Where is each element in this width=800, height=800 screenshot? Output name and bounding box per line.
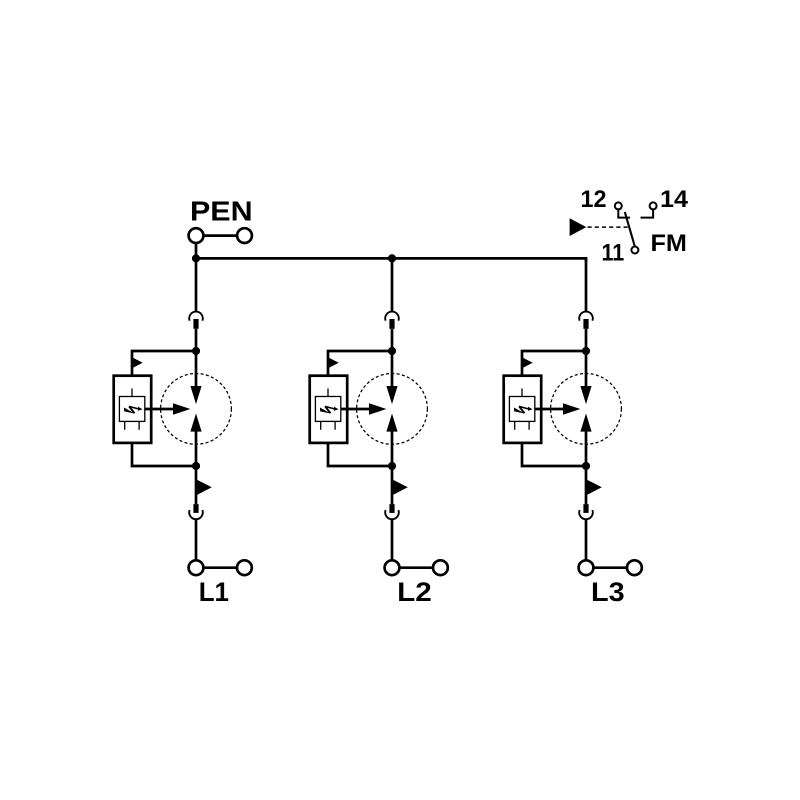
- wire: disconnect to junction node: [585, 329, 588, 351]
- wire: junction to spark gap upper electrode: [391, 351, 394, 387]
- wire: lower parallel loop from monitoring block: [132, 443, 196, 466]
- spark gap lower electrode (triangle up): [580, 414, 591, 432]
- monitoring device block (outer rectangle): [114, 376, 152, 443]
- disconnect direction flag (large) on main wire: [392, 479, 408, 495]
- wire: between L2 terminal circles: [399, 566, 433, 569]
- svg-text:11: 11: [602, 240, 625, 267]
- svg-text:FM: FM: [651, 230, 687, 257]
- thermal disconnect (bottom) on L2 branch: contact block + arc: [385, 504, 399, 519]
- wire: disconnect to junction node: [391, 329, 394, 351]
- contact terminal 11 (circle): [631, 247, 638, 254]
- wire: spark gap to lower junction: [195, 431, 198, 467]
- disconnect direction flag (small) on loop wire: [132, 357, 143, 368]
- surge impulse symbol (lightning bolt) inside inner rect: [514, 406, 533, 413]
- node: lower junction on L3 branch: [582, 462, 590, 470]
- svg-text:L2: L2: [397, 577, 432, 607]
- disconnect direction flag (large) on main wire: [586, 479, 602, 495]
- trigger arrow from monitoring block to spark gap: [341, 403, 387, 414]
- contact terminal 14 (circle): [650, 202, 657, 209]
- trigger arrow from monitoring block to spark gap: [535, 403, 581, 414]
- terminal circle L2 (right): [433, 560, 448, 575]
- terminal circle L1 (right): [237, 560, 252, 575]
- wire: between PEN terminal circles: [203, 234, 237, 237]
- wire: upper parallel loop to monitoring block: [522, 351, 586, 376]
- wire: junction to spark gap upper electrode: [585, 351, 588, 387]
- spark gap lower electrode (triangle up): [190, 414, 201, 432]
- pin: inner element bottom leads: [515, 421, 529, 429]
- terminal circle PEN (left): [189, 228, 204, 243]
- thermal disconnect (top) on L1 branch: arc + contact block: [189, 312, 203, 329]
- terminal circle L1 (left): [189, 560, 204, 575]
- contact terminal 12 (circle): [615, 202, 622, 209]
- trigger arrow from monitoring block to spark gap: [145, 403, 191, 414]
- pin: inner element top lead: [521, 388, 523, 396]
- wire: junction to spark gap upper electrode: [195, 351, 198, 387]
- svg-text:14: 14: [660, 186, 688, 213]
- dashed circle around spark gap: [161, 374, 232, 445]
- wire: junction through flag to lower disconnect: [585, 466, 588, 504]
- varistor element (inner rectangle): [119, 397, 144, 422]
- wire: junction through flag to lower disconnect: [391, 466, 394, 504]
- wire: L3 branch from PEN bus down to thermal disconnect: [585, 258, 588, 311]
- pin: inner element top lead: [131, 388, 133, 396]
- node: lower junction on L2 branch: [388, 462, 396, 470]
- wire: junction through flag to lower disconnect: [195, 466, 198, 504]
- thermal disconnect (top) on L3 branch: arc + contact block: [579, 312, 593, 329]
- wire: spark gap to lower junction: [391, 431, 394, 467]
- varistor element (inner rectangle): [509, 397, 534, 422]
- surge impulse symbol (lightning bolt) inside inner rect: [124, 406, 143, 413]
- terminal circle L3 (left): [579, 560, 594, 575]
- dashed actuation line to changeover contact: [588, 226, 630, 228]
- wire: L1 branch from PEN bus down to thermal disconnect: [195, 258, 198, 311]
- node: upper junction on L3 branch: [582, 347, 590, 355]
- thermal disconnect (bottom) on L3 branch: contact block + arc: [579, 504, 593, 519]
- terminal circle PEN (right): [237, 228, 252, 243]
- wire: PEN terminal down to bus: [195, 243, 198, 258]
- surge impulse symbol (lightning bolt) inside inner rect: [320, 406, 339, 413]
- disconnect direction flag (large) on main wire: [196, 479, 212, 495]
- dashed circle around spark gap: [551, 374, 622, 445]
- node: bus junction above L2: [388, 254, 396, 262]
- pin: inner element bottom leads: [125, 421, 139, 429]
- monitoring device block (outer rectangle): [310, 376, 348, 443]
- wire: lower parallel loop from monitoring block: [328, 443, 392, 466]
- disconnect direction flag (small) on loop wire: [328, 357, 339, 368]
- terminal circle L2 (left): [385, 560, 400, 575]
- thermal disconnect (bottom) on L1 branch: contact block + arc: [189, 504, 203, 519]
- node: lower junction on L1 branch: [192, 462, 200, 470]
- wire: between L3 terminal circles: [593, 566, 627, 569]
- svg-text:L1: L1: [199, 577, 229, 607]
- wire: spark gap to lower junction: [585, 431, 588, 467]
- svg-text:PEN: PEN: [190, 196, 253, 227]
- spark gap lower electrode (triangle up): [386, 414, 397, 432]
- monitoring device block (outer rectangle): [504, 376, 542, 443]
- wire: upper parallel loop to monitoring block: [328, 351, 392, 376]
- terminal circle L3 (right): [627, 560, 642, 575]
- wire: upper parallel loop to monitoring block: [132, 351, 196, 376]
- pin: contact 14 L-shaped lead: [641, 210, 654, 218]
- dashed circle around spark gap: [357, 374, 428, 445]
- node: upper junction on L2 branch: [388, 347, 396, 355]
- svg-text:L3: L3: [591, 577, 625, 607]
- pin: inner element bottom leads: [321, 421, 335, 429]
- wire: lower parallel loop from monitoring block: [522, 443, 586, 466]
- wire: disconnect to L3 terminal: [585, 519, 588, 560]
- varistor element (inner rectangle): [315, 397, 340, 422]
- wire: disconnect to L2 terminal: [391, 519, 394, 560]
- wire: disconnect to L1 terminal: [195, 519, 198, 560]
- node: bus junction above L1: [192, 254, 200, 262]
- wire: disconnect to junction node: [195, 329, 198, 351]
- thermal disconnect (top) on L2 branch: arc + contact block: [385, 312, 399, 329]
- wire: between L1 terminal circles: [203, 566, 237, 569]
- wire: PEN bus horizontal with corner down to L3 branch: [196, 258, 586, 262]
- disconnect direction flag (small) on loop wire: [522, 357, 533, 368]
- wire: L2 branch from PEN bus down to thermal disconnect: [391, 258, 394, 311]
- spark gap upper electrode (triangle down): [190, 386, 201, 404]
- node: upper junction on L1 branch: [192, 347, 200, 355]
- pin: contact 12 L-shaped lead: [618, 210, 630, 218]
- changeover contact moving arm (11 common): [625, 212, 635, 247]
- spark gap upper electrode (triangle down): [580, 386, 591, 404]
- svg-text:12: 12: [581, 186, 607, 213]
- spark gap upper electrode (triangle down): [386, 386, 397, 404]
- pin: inner element top lead: [327, 388, 329, 396]
- remote indication contact FM: signal arrow: [570, 218, 587, 236]
